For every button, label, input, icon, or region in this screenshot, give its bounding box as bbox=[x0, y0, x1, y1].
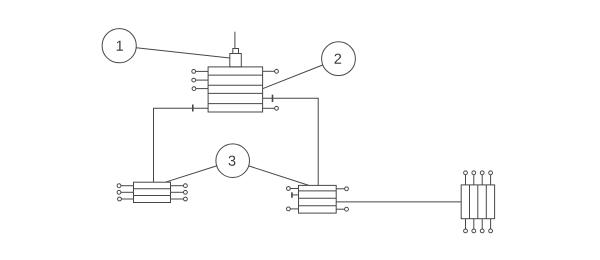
transformer T1 body bbox=[208, 67, 263, 112]
transformer T1 antenna lead bbox=[234, 32, 236, 49]
callout circle 2 bbox=[322, 42, 356, 76]
T1 left pin 1 bbox=[192, 70, 208, 74]
winding block L2 body bbox=[299, 185, 337, 213]
F1 section line 2 bbox=[477, 185, 479, 219]
L2 top-right pin bbox=[336, 187, 348, 191]
L2 winding line 2 bbox=[299, 197, 337, 199]
T1 right pin 2 bbox=[263, 106, 279, 110]
L1 right pin 3 bbox=[171, 197, 188, 201]
F1 top pin 4 bbox=[489, 171, 493, 185]
leader line from callout 3 to winding block L2 bbox=[249, 166, 309, 186]
transformer T1 winding line 1 bbox=[208, 74, 263, 76]
L1 winding line 1 bbox=[134, 188, 171, 190]
L2 bottom-right pin bbox=[336, 207, 348, 211]
L2 top-left pin bbox=[287, 187, 299, 191]
F1 section line 3 bbox=[485, 185, 487, 219]
L1 right pin 2 bbox=[171, 190, 188, 194]
transformer T1 bushing cap bbox=[233, 49, 239, 54]
callout circle 1 bbox=[102, 29, 136, 63]
F1 bottom pin 3 bbox=[480, 219, 484, 233]
winding block L1 body bbox=[134, 182, 171, 202]
F1 top pin 2 bbox=[472, 171, 476, 185]
L1 right pin 1 bbox=[171, 184, 188, 188]
F1 bottom pin 1 bbox=[464, 219, 468, 233]
F1 section line 1 bbox=[469, 185, 471, 219]
T1 left pin 3 bbox=[192, 87, 208, 91]
transformer T1 winding line 3 bbox=[208, 92, 263, 94]
T1 right pin 1 bbox=[263, 69, 279, 73]
wire from T1 right to winding block L2 bbox=[263, 98, 319, 185]
L2 winding line 3 bbox=[299, 205, 337, 207]
callout circle 3 bbox=[216, 144, 250, 178]
L2 winding line 1 bbox=[299, 190, 337, 192]
leader line from callout 2 to transformer T1 right edge bbox=[263, 65, 323, 89]
L2 bottom-left pin bbox=[287, 207, 299, 211]
wire from T1 left to winding block L1 bbox=[154, 108, 209, 182]
transformer T1 winding line 2 bbox=[208, 84, 263, 86]
wire from L2 to filter block F1 bbox=[336, 201, 461, 203]
filter block F1 body bbox=[461, 185, 494, 219]
T1 left pin 2 bbox=[192, 78, 208, 82]
F1 bottom pin 2 bbox=[472, 219, 476, 233]
L1 left pin 3 bbox=[118, 197, 134, 201]
transformer T1 bushing bbox=[230, 54, 242, 67]
transformer T1 winding line 4 bbox=[208, 103, 263, 105]
L2 stub with tick bbox=[292, 192, 299, 198]
leader line from callout 1 to bushing bbox=[136, 48, 230, 58]
leader line from callout 3 to winding block L1 bbox=[165, 166, 217, 183]
F1 top pin 3 bbox=[480, 171, 484, 185]
L1 left pin 1 bbox=[117, 184, 133, 188]
F1 top pin 1 bbox=[464, 171, 468, 185]
F1 bottom pin 4 bbox=[489, 219, 493, 233]
L1 winding line 2 bbox=[134, 195, 171, 197]
tick on left wire bbox=[192, 105, 194, 112]
L1 left pin 2 bbox=[117, 190, 133, 194]
tick on right wire bbox=[272, 95, 274, 102]
